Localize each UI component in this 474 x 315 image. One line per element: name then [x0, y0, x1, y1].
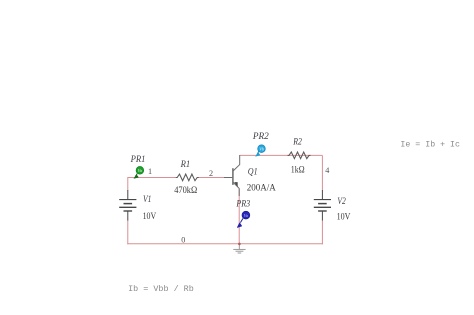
- wire node 2 segment: [198, 177, 224, 179]
- wire bottom net node 0: [127, 243, 323, 245]
- transistor Q1: [224, 155, 240, 196]
- svg-text:PR3: PR3: [236, 198, 251, 208]
- junction node 0/emitter: [238, 243, 241, 246]
- battery V1: [119, 190, 136, 221]
- svg-text:R2: R2: [292, 137, 302, 147]
- resistor R2: [288, 152, 311, 159]
- svg-text:Ie = Ib + Ic: Ie = Ib + Ic: [400, 140, 460, 150]
- wire left vertical top (node 1 to V1): [127, 177, 129, 191]
- svg-text:10V: 10V: [337, 211, 351, 221]
- svg-text:200A/A: 200A/A: [247, 182, 276, 192]
- emitter lead: [233, 182, 239, 196]
- svg-text:PR1: PR1: [130, 154, 146, 164]
- svg-text:PR2: PR2: [252, 131, 269, 141]
- collector lead: [233, 155, 240, 171]
- ground: [233, 244, 245, 253]
- resistor R1: [176, 174, 199, 181]
- svg-text:0: 0: [181, 235, 185, 244]
- wire collector net top (node 3): [240, 154, 323, 156]
- svg-text:10V: 10V: [143, 211, 157, 221]
- probe PR3: [237, 211, 249, 227]
- wire base net (node 1) horizontal: [128, 177, 177, 179]
- svg-text:Vb: Vb: [259, 147, 265, 152]
- wire right vertical top (to V2): [321, 155, 323, 190]
- svg-text:Q1: Q1: [248, 166, 258, 176]
- wire right vertical bottom (V2 to node 0): [321, 220, 323, 244]
- base lead: [224, 177, 232, 179]
- svg-text:1kΩ: 1kΩ: [291, 164, 305, 174]
- svg-text:1: 1: [148, 167, 152, 176]
- wire emitter vertical: [238, 189, 240, 244]
- svg-text:470kΩ: 470kΩ: [174, 185, 197, 195]
- svg-text:V2: V2: [337, 196, 346, 206]
- probe PR1: [134, 167, 144, 179]
- svg-text:Ib = Vbb / Rb: Ib = Vbb / Rb: [128, 284, 194, 294]
- svg-text:V1: V1: [143, 194, 151, 204]
- battery V2: [314, 190, 331, 221]
- svg-text:4: 4: [325, 166, 329, 175]
- wire left vertical bottom (V1 to node 0): [127, 220, 129, 244]
- emitter arrowhead: [234, 182, 239, 188]
- svg-text:R1: R1: [180, 159, 191, 169]
- svg-text:2: 2: [209, 169, 213, 178]
- probe PR2: [256, 145, 266, 156]
- base bar: [232, 168, 234, 185]
